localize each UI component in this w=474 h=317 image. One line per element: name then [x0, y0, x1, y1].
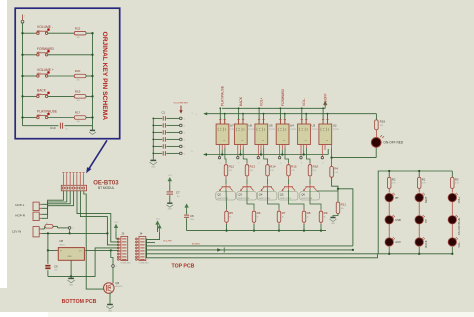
header P1 OE-BT03 — [61, 185, 86, 191]
svg-text:R3: R3 — [455, 177, 459, 181]
pin stub 1 — [62, 175, 64, 185]
label box Q3 — [237, 192, 257, 200]
svg-text:R22: R22 — [75, 26, 81, 30]
wire header pin6 down — [80, 191, 118, 245]
svg-text:AUX: AUX — [395, 240, 401, 244]
led VOL+ — [448, 193, 456, 201]
svg-text:C8: C8 — [190, 214, 194, 218]
svg-text:1k: 1k — [307, 217, 309, 219]
resistor R6 — [252, 211, 256, 222]
svg-text:ORJINAL KEY PIN SCHEMA: ORJINAL KEY PIN SCHEMA — [101, 32, 108, 121]
wire Q4 down to R7 — [267, 187, 269, 190]
pin stub 6 — [79, 175, 81, 185]
led NEXT — [415, 193, 423, 201]
label box Q2 — [216, 192, 236, 200]
resistor R9 — [319, 211, 323, 222]
led USB — [385, 216, 393, 224]
wire 12V rail — [42, 232, 108, 234]
wire gate — [104, 288, 105, 290]
led ON-OFF BLUE — [448, 216, 456, 224]
svg-text:MMBT2222A: MMBT2222A — [259, 197, 271, 200]
transistor Q3 — [243, 186, 252, 188]
resistor R5 — [225, 211, 229, 222]
wire led-grid frame — [378, 171, 452, 254]
svg-text:U3: U3 — [311, 124, 315, 128]
pins below optocoupler — [257, 145, 259, 157]
svg-text:R11: R11 — [341, 203, 347, 207]
wire row VOLUME - — [23, 32, 38, 34]
resistor R11 — [337, 191, 339, 202]
power flag on upper bus — [324, 105, 326, 109]
svg-text:78L05: 78L05 — [59, 244, 65, 246]
svg-text:VOL+: VOL+ — [457, 196, 461, 203]
wire bottom with capacitor C10 — [23, 125, 59, 127]
svg-text:MMBT2222A: MMBT2222A — [301, 197, 313, 200]
wire led column to bottom bus — [388, 247, 390, 254]
wire pin to resistor R13 — [242, 145, 244, 149]
svg-text:6: 6 — [192, 151, 193, 153]
svg-text:AO3402: AO3402 — [115, 285, 122, 288]
svg-text:1.2k: 1.2k — [229, 170, 233, 172]
svg-text:VOL-: VOL- — [457, 241, 461, 247]
svg-text:PLAY/PAUSE: PLAY/PAUSE — [221, 85, 225, 106]
wire grid column 2 — [418, 171, 420, 177]
wire resistor to bottom rail — [226, 222, 228, 224]
wire cap-bank left rail — [152, 118, 154, 158]
wire resistor to rail — [86, 117, 93, 119]
svg-text:2: 2 — [301, 162, 302, 164]
resistor R18 — [308, 165, 312, 176]
svg-text:10k: 10k — [77, 80, 80, 82]
svg-text:BACK: BACK — [239, 96, 243, 106]
svg-text:2: 2 — [220, 162, 221, 164]
svg-text:2: 2 — [258, 162, 259, 164]
svg-text:U7: U7 — [230, 124, 234, 128]
svg-text:U5: U5 — [269, 124, 273, 128]
wire cap row 3 — [153, 131, 162, 133]
svg-text:VOLUME -: VOLUME - — [37, 25, 53, 29]
wire pins of U7 to buses — [219, 108, 221, 124]
svg-text:VOL+: VOL+ — [260, 97, 264, 106]
svg-text:BOTTOM PCB: BOTTOM PCB — [62, 299, 97, 305]
svg-text:2: 2 — [322, 162, 323, 164]
pointer arrow to BT module — [88, 140, 107, 170]
resistor R1 — [417, 177, 421, 188]
pins below optocoupler — [300, 145, 302, 157]
wire to drain terminal — [111, 250, 113, 264]
svg-text:Q3: Q3 — [238, 192, 242, 196]
svg-text:NEXT: NEXT — [424, 196, 428, 203]
svg-text:10k: 10k — [77, 100, 80, 102]
svg-text:Q6: Q6 — [301, 192, 305, 196]
svg-text:R15: R15 — [291, 164, 297, 168]
label box Q5 — [278, 192, 298, 200]
wire pin to resistor R12 — [224, 145, 226, 149]
pin stub 5 — [76, 175, 78, 185]
svg-text:VOL-: VOL- — [302, 98, 306, 106]
resistor R17 — [74, 116, 86, 120]
resistor R8 — [302, 211, 306, 222]
wire resistor to transistor Q3 — [246, 176, 248, 179]
resistor R19 — [74, 95, 86, 99]
svg-text:R20: R20 — [75, 69, 81, 73]
button VOLUME + — [37, 75, 39, 77]
wire resistor to bottom rail — [253, 222, 255, 224]
wire bus with arrow — [147, 249, 353, 251]
optocoupler U5 — [255, 124, 268, 145]
wire to resistor R17 — [48, 117, 74, 119]
svg-text:Q5: Q5 — [280, 192, 284, 196]
svg-text:R5: R5 — [229, 211, 233, 215]
pin stub 4 — [73, 175, 75, 185]
svg-text:U4: U4 — [290, 124, 294, 128]
wire led column to bottom bus — [418, 247, 420, 254]
bus wire lower with left arrow — [207, 113, 377, 115]
svg-text:VCC: VCC — [114, 222, 119, 224]
terminal nc pin — [257, 157, 259, 159]
wire Q5 down to R8 — [288, 187, 290, 190]
wire pin to resistor R15 — [284, 145, 286, 149]
svg-text:VCC: VCC — [156, 218, 161, 220]
svg-text:2: 2 — [238, 162, 239, 164]
terminal 12V test — [68, 227, 71, 230]
wire U8 input — [54, 249, 58, 251]
svg-text:ON-OFF BLUE: ON-OFF BLUE — [457, 217, 461, 235]
wire U8 ground pin — [70, 260, 72, 276]
svg-text:J4: J4 — [139, 231, 142, 235]
svg-text:1.2k: 1.2k — [270, 170, 274, 172]
pin stub 2 — [66, 175, 68, 185]
pins below optocoupler — [279, 145, 281, 157]
pin stub 7 — [83, 175, 85, 185]
ground R11 — [333, 214, 338, 217]
wires HOP-L to header — [42, 191, 64, 205]
svg-text:GND: GND — [67, 256, 72, 258]
svg-text:R19: R19 — [75, 90, 81, 94]
resistor R12 — [224, 165, 228, 176]
svg-text:Q6: Q6 — [115, 281, 119, 285]
svg-text:U2: U2 — [333, 124, 337, 128]
wire grid column 1 — [388, 171, 390, 177]
svg-text:10n: 10n — [177, 196, 180, 198]
capacitor row 6 — [162, 151, 164, 155]
optocoupler U6 — [234, 124, 247, 145]
svg-text:1k: 1k — [324, 217, 326, 219]
annotation box - original key pin schema — [15, 8, 120, 139]
wire U2 pin to node — [331, 145, 333, 149]
terminal T5 — [180, 145, 183, 148]
pin stub 3 — [69, 175, 71, 185]
svg-text:CONN-SIL8: CONN-SIL8 — [120, 263, 130, 265]
svg-text:TLP221: TLP221 — [248, 129, 254, 131]
svg-text:TLP221: TLP221 — [333, 129, 339, 131]
svg-text:ON/OFF: ON/OFF — [324, 94, 328, 106]
optocoupler U7 — [216, 124, 229, 145]
svg-text:F1: F1 — [46, 223, 48, 225]
wire pins of U5 to buses — [258, 108, 260, 124]
svg-text:Q2: Q2 — [217, 192, 221, 196]
wire header pin7 down to mosfet gate — [84, 191, 104, 289]
power flag VCC J2 — [115, 228, 117, 232]
svg-text:MMBT2222A: MMBT2222A — [217, 197, 229, 200]
wire emitter rail — [187, 230, 326, 232]
wire Q6 collector to node — [317, 190, 338, 192]
wire row PLAY/PAUSE — [23, 117, 38, 119]
wires J4 to buses — [145, 238, 148, 241]
capacitor C8 on emitter rail — [186, 218, 188, 230]
capacitor C7 — [169, 181, 171, 185]
svg-text:1.2k: 1.2k — [250, 170, 254, 172]
svg-text:1k: 1k — [257, 217, 259, 219]
svg-text:U6: U6 — [248, 124, 252, 128]
wire node to led cathode — [332, 157, 377, 159]
transistor Q5 — [284, 186, 293, 188]
svg-text:BACK: BACK — [424, 240, 428, 247]
resistor R19 — [375, 120, 379, 130]
transistor Q4 — [263, 186, 272, 188]
resistor R2 — [387, 177, 391, 188]
led ON-OFF RED D1 — [371, 138, 381, 148]
terminal T2 — [180, 124, 183, 127]
svg-text:TLP221: TLP221 — [290, 129, 296, 131]
svg-text:VCC-PW: VCC-PW — [163, 241, 171, 243]
svg-text:1.2k: 1.2k — [291, 170, 295, 172]
svg-text:R12: R12 — [229, 164, 235, 168]
wire Q6 down to R9 — [309, 187, 311, 190]
svg-text:100n: 100n — [190, 219, 194, 221]
wire resistor to rail — [86, 75, 93, 77]
wire Q2 down to R5 — [225, 187, 227, 190]
wire C9 gnd link — [48, 275, 71, 277]
svg-text:12V IN: 12V IN — [12, 230, 21, 234]
svg-text:1k: 1k — [229, 217, 231, 219]
svg-text:R14: R14 — [270, 164, 276, 168]
terminal T1 — [180, 117, 183, 120]
svg-text:R1: R1 — [422, 177, 426, 181]
wire resistor to rail — [86, 32, 93, 34]
capacitor C10 — [59, 123, 61, 129]
svg-text:VCC: VCC — [168, 175, 173, 177]
optocoupler U4 — [276, 124, 289, 145]
wire pins of U2 to buses — [322, 108, 324, 124]
svg-text:R6: R6 — [257, 211, 261, 215]
wire header pin5 down — [77, 191, 118, 242]
svg-text:USB: USB — [395, 218, 401, 222]
wire R4 to R11 node — [332, 177, 338, 191]
svg-text:GND: GND — [151, 167, 156, 169]
button PLAY/PAUSE — [37, 116, 39, 118]
wire R19 to led — [375, 130, 377, 138]
wire source to ground — [109, 293, 111, 304]
wire row VOLUME + — [23, 75, 38, 77]
wire cap row 4 — [153, 138, 162, 140]
led BACK — [415, 238, 423, 246]
svg-text:1k: 1k — [282, 217, 284, 219]
terminal nc pin — [218, 157, 220, 159]
wire resistor to transistor Q4 — [267, 176, 269, 179]
transistor Q6 — [306, 186, 315, 188]
label box Q6 — [300, 192, 320, 200]
svg-text:1n: 1n — [66, 129, 68, 131]
svg-text:R18: R18 — [313, 164, 319, 168]
wire cap row 6 — [153, 152, 162, 154]
wire cap row 2 — [153, 124, 162, 126]
svg-text:VCC-PWR KEY: VCC-PWR KEY — [174, 102, 189, 104]
wire resistor to transistor Q6 — [309, 176, 311, 179]
led BT — [385, 193, 393, 201]
svg-text:BT: BT — [395, 196, 399, 200]
fuse F1 — [42, 228, 45, 230]
wire Q3 down to R6 — [246, 187, 248, 190]
resistor R20 — [74, 74, 86, 78]
wire rail to U8 — [48, 233, 54, 250]
svg-text:MMBT2222A: MMBT2222A — [238, 197, 250, 200]
svg-text:C10: C10 — [50, 126, 56, 130]
svg-text:R4: R4 — [334, 166, 338, 170]
svg-text:R2: R2 — [392, 177, 396, 181]
wire resistor to bottom rail — [303, 222, 305, 224]
wire to resistor R20 — [48, 75, 74, 77]
svg-text:GND: GND — [331, 223, 336, 225]
wire pins of U6 to buses — [238, 108, 240, 124]
svg-text:CONN-SIL8: CONN-SIL8 — [139, 263, 149, 265]
pins below optocoupler — [219, 145, 221, 157]
svg-text:GND: GND — [69, 285, 74, 287]
svg-text:10k: 10k — [341, 208, 344, 210]
wires HOP-R to header — [42, 191, 71, 215]
wire row FORWARD — [23, 54, 38, 56]
svg-text:C1: C1 — [162, 111, 166, 115]
wire collector bus with left arrow — [206, 154, 328, 156]
svg-text:C9: C9 — [54, 264, 58, 268]
terminal nc pin — [278, 157, 280, 159]
wire pin to resistor R18 — [305, 145, 307, 149]
terminal nc pin — [321, 157, 323, 159]
wire resistor to bottom rail — [278, 222, 280, 224]
svg-text:HOP-L: HOP-L — [15, 203, 25, 207]
button FORWARD — [37, 54, 39, 56]
ground cap bank — [152, 159, 154, 160]
button VOLUME - — [37, 32, 39, 34]
wire bus BT-SET — [147, 245, 353, 247]
capacitor row 4 — [162, 137, 164, 141]
wire to resistor R22 — [48, 32, 74, 34]
terminal drain — [112, 265, 115, 268]
wire left vertical rail — [22, 23, 24, 126]
wire bus 242 — [147, 242, 156, 244]
svg-text:TOP PCB: TOP PCB — [172, 264, 195, 270]
pins below optocoupler — [321, 145, 323, 157]
svg-text:MMBT2222A: MMBT2222A — [280, 197, 292, 200]
wire to resistor R19 — [48, 95, 74, 97]
resistor R7 — [277, 211, 281, 222]
resistor R4 — [331, 158, 333, 167]
svg-text:PP: PP — [424, 219, 428, 223]
wire ground return to J2 — [71, 248, 118, 277]
svg-text:Q4: Q4 — [259, 192, 263, 196]
resistor R3 — [451, 177, 455, 188]
wire led column to bottom bus — [451, 247, 453, 254]
terminal nc pin — [300, 157, 302, 159]
terminal T3 — [180, 131, 183, 134]
transistor Q2 — [222, 186, 231, 188]
label box Q4 — [257, 192, 277, 200]
wire cap row 5 — [153, 145, 162, 147]
svg-text:C7: C7 — [176, 191, 180, 195]
wire resistor to bottom rail — [320, 222, 322, 224]
wire pins of U4 to buses — [279, 108, 281, 124]
wire row BACK — [23, 95, 38, 97]
svg-text:PLAY/PAUSE: PLAY/PAUSE — [37, 110, 58, 114]
svg-text:R17: R17 — [75, 111, 81, 115]
wire resistor to rail — [86, 95, 93, 97]
wire bus to grid bottom — [147, 253, 379, 255]
capacitor row 3 — [162, 130, 164, 134]
svg-text:ON-OFF RED: ON-OFF RED — [383, 141, 404, 145]
svg-text:R8: R8 — [307, 211, 311, 215]
svg-text:FORWARD: FORWARD — [281, 89, 285, 106]
ground of key schema — [92, 126, 94, 130]
capacitor row 5 — [162, 144, 164, 148]
svg-text:R19: R19 — [380, 120, 386, 124]
optocoupler U3 — [298, 124, 311, 145]
svg-text:2: 2 — [280, 162, 281, 164]
svg-text:U8: U8 — [59, 239, 63, 243]
wire bus lowest — [147, 254, 378, 258]
wire bus to R19 — [375, 114, 377, 120]
svg-text:J2: J2 — [121, 231, 124, 235]
resistor R13 — [245, 165, 249, 176]
svg-text:5: 5 — [116, 266, 117, 268]
svg-text:3: 3 — [72, 228, 73, 230]
button BACK — [37, 95, 39, 97]
led AUX — [385, 238, 393, 246]
wire row to rail — [48, 54, 93, 56]
svg-text:1.2k: 1.2k — [334, 172, 338, 174]
svg-text:VOLUME +: VOLUME + — [37, 68, 54, 72]
wire pins of U3 to buses — [301, 108, 303, 124]
wire cap row 1 — [153, 117, 162, 119]
terminal T6 — [180, 152, 183, 155]
optocoupler U2 — [319, 124, 332, 145]
svg-text:1: 1 — [192, 113, 193, 115]
terminal T4 — [180, 138, 183, 141]
arrow down to terminals — [180, 106, 182, 111]
capacitor C9 polarized — [47, 250, 49, 263]
svg-text:1.2k: 1.2k — [313, 170, 317, 172]
svg-text:R7: R7 — [282, 211, 286, 215]
wire resistor to transistor Q5 — [288, 176, 290, 179]
led PP — [415, 216, 423, 224]
bus wire upper — [222, 107, 325, 109]
svg-text:GND: GND — [168, 209, 173, 211]
resistor R14 — [266, 165, 270, 176]
resistor R22 — [74, 31, 86, 35]
terminal input top-left — [21, 20, 24, 23]
wire grid column 3 — [451, 171, 453, 177]
svg-text:FORWARD: FORWARD — [37, 47, 54, 51]
wire short vcc link — [147, 232, 160, 240]
svg-text:BACK: BACK — [37, 88, 47, 92]
wire resistor to transistor Q2 — [225, 176, 227, 179]
pins below optocoupler — [237, 145, 239, 157]
transistor Q6 mosfet — [104, 283, 115, 294]
svg-text:TLP221: TLP221 — [269, 129, 275, 131]
led VOL- — [448, 238, 456, 246]
svg-text:R13: R13 — [250, 164, 256, 168]
resistor R15 — [287, 165, 291, 176]
capacitor row 2 — [162, 123, 164, 127]
